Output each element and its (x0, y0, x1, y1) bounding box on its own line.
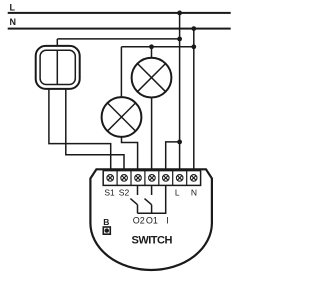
wire S1 from switch (49, 89, 111, 171)
svg-text:O1: O1 (146, 216, 158, 226)
terminal block (103, 171, 200, 186)
terminal screw O1 (149, 175, 156, 182)
junction dot on N bus (191, 26, 196, 31)
junction dot L feed to I branch (177, 140, 182, 145)
junction dot on L bus (177, 11, 182, 16)
lamp E1 (132, 58, 172, 98)
button B icon (103, 227, 110, 234)
wire L bus (8, 12, 231, 14)
wire lamp bus to N feed (121, 46, 193, 48)
wire lamp E2 to O2 (122, 137, 138, 171)
switch S wall double rocker (36, 46, 80, 89)
wire N feed (193, 29, 195, 171)
junction dot lamp E1 stub (149, 44, 154, 49)
wire lamp E2 top (120, 47, 122, 97)
relay contact O2 (130, 185, 137, 213)
wire N bus (8, 28, 231, 30)
svg-text:L: L (10, 2, 16, 12)
terminal screw S1 (107, 175, 114, 182)
lamp E2 (102, 97, 142, 137)
svg-text:O2: O2 (133, 216, 145, 226)
device SWITCH module outline (90, 169, 211, 270)
junction dot lamp bus on N feed (191, 44, 196, 49)
svg-text:S1: S1 (104, 187, 115, 197)
svg-text:S2: S2 (119, 187, 130, 197)
wire L feed (179, 13, 181, 171)
wire relay common bus to I (138, 185, 166, 213)
terminal screw L (176, 175, 183, 182)
relay contact O1 (145, 185, 152, 213)
wire switch common to L feed (57, 38, 179, 40)
svg-text:L: L (175, 188, 180, 198)
svg-text:N: N (10, 17, 17, 27)
terminal screw S2 (121, 175, 128, 182)
wire lamp E1 top stub (151, 47, 153, 58)
wire lamp E1 to O1 (151, 98, 153, 171)
wire switch top stub (56, 39, 58, 46)
svg-text:I: I (166, 216, 169, 226)
terminal screw O2 (135, 175, 142, 182)
terminal screw I (163, 175, 170, 182)
svg-text:B: B (103, 217, 109, 227)
wire I branch (166, 142, 180, 171)
svg-text:N: N (191, 188, 197, 198)
wire S2 from switch (66, 89, 124, 171)
svg-text:SWITCH: SWITCH (132, 234, 173, 246)
junction dot switch bus on L feed (177, 37, 182, 42)
terminal screw N (190, 175, 197, 182)
